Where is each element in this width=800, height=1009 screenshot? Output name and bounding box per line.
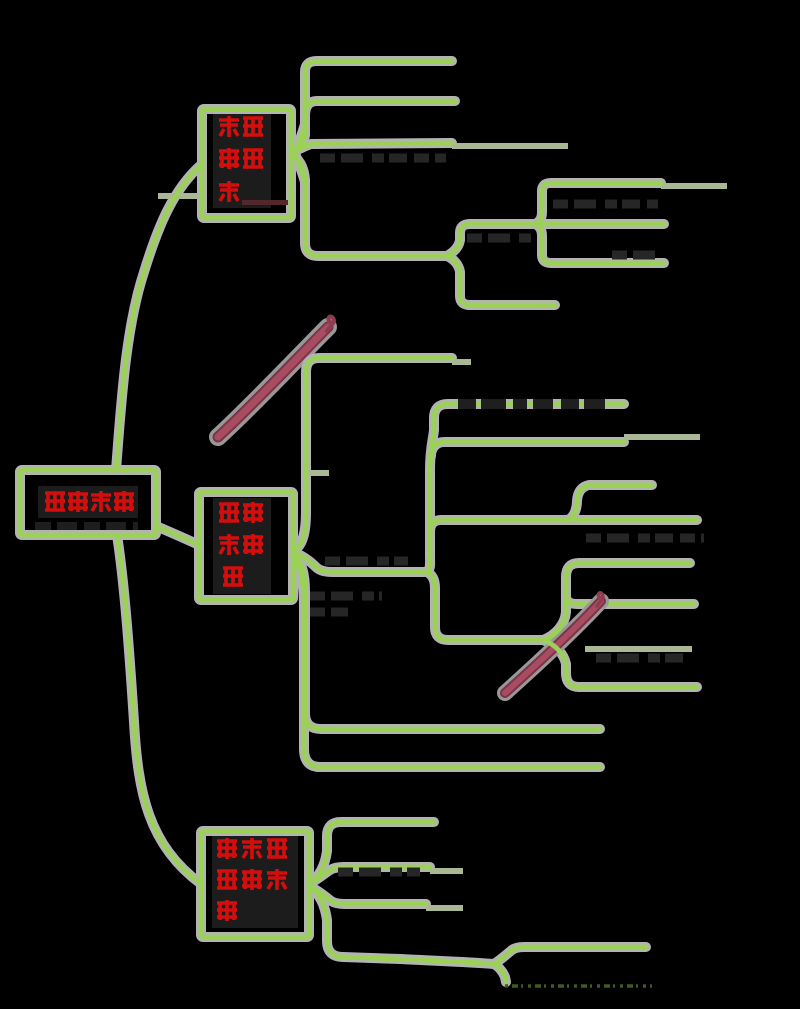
annotation A2 tip curl xyxy=(597,593,603,606)
ghost row under root text xyxy=(35,522,138,530)
tail of branch m1 xyxy=(452,359,471,365)
faint jpeg panels behind text xyxy=(38,486,138,518)
topic3 text 测量仪器的应用 xyxy=(217,838,237,859)
ghost text rows (dark) xyxy=(310,158,704,872)
topic2 text 实施与控制 xyxy=(219,504,239,521)
gray line h3 xyxy=(585,646,692,652)
annotation stroke A1 dark body xyxy=(218,327,328,437)
tail of topic3 branch3 xyxy=(426,905,463,911)
red node text glyphs xyxy=(45,116,287,921)
green line layer xyxy=(20,61,697,982)
annotation stroke A2 dark body xyxy=(505,601,601,693)
annotation stroke A1 light core xyxy=(218,327,328,437)
annotation A1 tip curl xyxy=(327,317,334,331)
tail of branch3 xyxy=(452,143,568,149)
tail of line B xyxy=(624,434,700,440)
dark red bar in topic1 xyxy=(242,200,288,205)
stub topic1 left xyxy=(158,193,202,199)
tail of topic3 branch2 xyxy=(430,868,463,874)
annotation stroke A2 light core xyxy=(505,601,601,693)
wire knot overpaint xyxy=(543,625,562,655)
topic1 text 方法及要求 xyxy=(219,116,239,137)
tail of trident h1 xyxy=(661,183,727,189)
muted gray-green tails xyxy=(158,146,727,908)
gray shadow layer xyxy=(20,61,697,982)
root text 测量技术 xyxy=(45,493,65,510)
dark dotted bottom line xyxy=(505,984,652,988)
annotation stroke A2 halo xyxy=(505,601,601,693)
annotation stroke A1 halo xyxy=(218,327,328,437)
stub near trunk m1 xyxy=(307,470,329,476)
ghost text on line A xyxy=(458,399,605,409)
